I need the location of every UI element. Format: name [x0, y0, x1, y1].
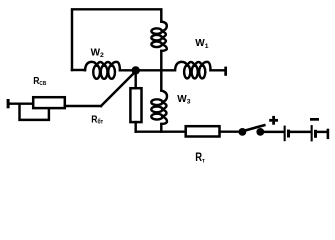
svg-text:W1: W1: [195, 38, 208, 50]
terminal tick at right end of W1: [224, 67, 227, 76]
label + (battery positive): [269, 116, 278, 125]
wire: rectangle bottom side from left corner to W2: [72, 69, 85, 71]
wire: W3 down to bottom bus: [160, 124, 162, 132]
battery cell 1 short plate: [287, 130, 290, 138]
inductor top tank coil (vertical, on right side of rectangle): [151, 22, 166, 51]
svg-text:RСВ: RСВ: [33, 75, 46, 87]
wire: switch to battery: [260, 131, 283, 133]
terminal tick at far left input: [7, 99, 10, 108]
resistor (vertical, base resistor) box: [130, 88, 141, 122]
switch contact dot right: [256, 128, 264, 136]
inductor W2 (horizontal, bottom of rectangle): [85, 62, 120, 79]
wire: vertical line from top coil down across top bus to W3: [160, 51, 162, 91]
wire: bypass loop from input wire to bottom of Rcb: [20, 104, 49, 120]
wire: Rt to switch: [220, 130, 240, 132]
terminal tick at far right: [327, 129, 330, 139]
wire: battery to end terminal: [317, 131, 327, 133]
resistor Rcb box: [33, 97, 65, 108]
resistor Rt box: [186, 126, 220, 136]
inductor W3 (vertical, center): [151, 91, 167, 124]
inductor W1 (horizontal, right): [175, 62, 211, 79]
wire: diagonal up to junction dot: [101, 72, 135, 106]
battery cell 1 long plate: [284, 126, 286, 142]
wire: top tank-circuit rectangle (left, top, right-upper sides): [72, 9, 161, 70]
wire: vertical resistor bottom to bottom bus elbow: [134, 122, 136, 132]
svg-text:W3: W3: [177, 94, 190, 106]
wire: between battery cells: [290, 131, 311, 133]
node: junction dot (base node): [132, 66, 140, 74]
wire: junction dot down to vertical resistor: [134, 70, 136, 88]
battery cell 2 long plate: [311, 125, 313, 141]
wire: W1 to right terminal: [211, 69, 225, 71]
battery cell 2 short plate: [314, 130, 317, 138]
svg-text:W2: W2: [91, 47, 104, 59]
wire: top bus from cross to W1: [161, 69, 175, 71]
wire: bottom bus from elbow to Rt: [136, 130, 186, 132]
svg-text:Rт: Rт: [195, 151, 204, 165]
wire: from W2 to center cross junction: [120, 69, 161, 71]
switch lever: [243, 125, 264, 131]
svg-text:Rбт: Rбт: [91, 114, 103, 126]
wire: left terminal to Rcb resistor: [10, 102, 33, 104]
switch contact dot left: [239, 128, 247, 136]
label - (battery negative): [310, 118, 319, 121]
wire: Rcb right side to diagonal start: [65, 105, 101, 107]
